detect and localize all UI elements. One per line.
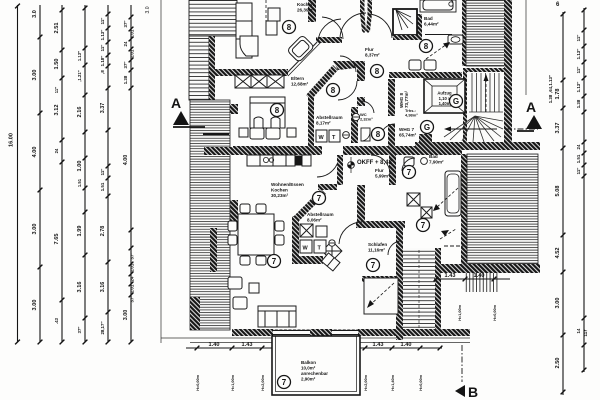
svg-text:1.51: 1.51 bbox=[77, 178, 82, 187]
roof hatch top right bbox=[466, 0, 506, 66]
svg-text:,8: ,8 bbox=[100, 70, 105, 74]
glass partition diagonal Eltern bbox=[286, 37, 322, 74]
svg-text:10,0m²: 10,0m² bbox=[301, 366, 316, 371]
wall Kochen/Flur top bbox=[316, 37, 342, 43]
svg-text:37″: 37″ bbox=[123, 20, 128, 28]
svg-text:1.99: 1.99 bbox=[77, 226, 83, 237]
svg-text:4,98m²: 4,98m² bbox=[405, 113, 418, 118]
svg-text:65,74m²: 65,74m² bbox=[399, 133, 417, 138]
svg-text:OKFF + 8,48: OKFF + 8,48 bbox=[357, 160, 393, 166]
svg-text:H=1,00m: H=1,00m bbox=[231, 374, 235, 390]
left dimension chain 5 bbox=[107, 5, 109, 342]
bed Eltern bbox=[239, 97, 296, 139]
svg-text:1.51: 1.51 bbox=[576, 154, 581, 163]
svg-text:3.00: 3.00 bbox=[123, 310, 129, 321]
svg-text:Kochen: Kochen bbox=[271, 188, 288, 193]
door arcs Kochen bbox=[322, 17, 343, 39]
Whg7 stair treads bbox=[403, 248, 435, 329]
door arc WC bbox=[361, 101, 374, 113]
right dimension chain 1 bbox=[562, 12, 564, 395]
wall top-right interior bbox=[462, 0, 468, 66]
svg-text:Bad: Bad bbox=[429, 154, 438, 159]
left outer wall lower bbox=[190, 297, 200, 330]
svg-text:2.51: 2.51 bbox=[54, 23, 60, 34]
Abstellraum7 south wall bbox=[292, 256, 323, 264]
svg-text:H=1,00m: H=1,00m bbox=[458, 304, 462, 320]
unit circle 7 Abstell bbox=[313, 192, 326, 205]
svg-text:7: 7 bbox=[421, 221, 426, 230]
svg-text:1.01: 1.01 bbox=[130, 284, 135, 293]
svg-text:4.52: 4.52 bbox=[555, 248, 561, 259]
svg-text:Balkon: Balkon bbox=[301, 360, 316, 365]
boxed symbol entry bbox=[361, 128, 370, 141]
svg-text:H=2,00m: H=2,00m bbox=[261, 374, 265, 390]
svg-text:11″: 11″ bbox=[576, 34, 581, 42]
bottom dimension line right part bbox=[360, 347, 442, 349]
winder stairs bbox=[444, 116, 503, 142]
svg-text:73,77m²: 73,77m² bbox=[404, 90, 409, 108]
wall Abstellraum8 north bbox=[333, 61, 365, 70]
svg-text:2.78: 2.78 bbox=[100, 226, 106, 237]
svg-text:H=1,40m: H=1,40m bbox=[391, 374, 395, 390]
unit circle 7 Balkon bbox=[278, 376, 291, 389]
wall Abstellraum8 west bbox=[308, 95, 314, 148]
level mark OKFF bbox=[348, 162, 355, 169]
svg-text:anrechenbar: anrechenbar bbox=[301, 371, 328, 376]
svg-text:30,23m²: 30,23m² bbox=[271, 193, 289, 198]
cupboard crossed Schlafen bbox=[300, 224, 327, 237]
svg-text:8,06m²: 8,06m² bbox=[307, 218, 322, 223]
right facade line bbox=[525, 0, 527, 95]
svg-text:11″: 11″ bbox=[54, 87, 59, 93]
svg-text:W: W bbox=[303, 246, 309, 252]
stair up arrow bbox=[485, 78, 487, 112]
svg-text:1.13″: 1.13″ bbox=[77, 51, 82, 61]
door arc Eltern bbox=[340, 56, 356, 72]
wall south right wing bbox=[398, 264, 540, 273]
chamfer wall Abstellraum8 bbox=[306, 65, 338, 100]
right outer wall bbox=[504, 0, 512, 147]
unit circle 7 Bad bbox=[417, 219, 430, 232]
wardrobe Eltern bbox=[235, 75, 284, 88]
svg-text:.43: .43 bbox=[54, 317, 59, 323]
svg-text:7: 7 bbox=[317, 194, 322, 203]
svg-text:3.16: 3.16 bbox=[100, 282, 106, 293]
mid-right dimension line bbox=[434, 278, 510, 280]
Abstellraum7 chamfer wall bbox=[294, 189, 326, 221]
mid-right height labels bbox=[458, 304, 497, 320]
svg-text:7: 7 bbox=[407, 168, 412, 177]
bathtub Bad7 bbox=[445, 171, 461, 216]
svg-text:3.00: 3.00 bbox=[555, 298, 561, 309]
exterior steps below right wing bbox=[464, 273, 498, 292]
arrow Bad7 bbox=[436, 188, 458, 208]
wc Bad8 bbox=[409, 60, 421, 70]
svg-text:Eltern: Eltern bbox=[291, 76, 304, 81]
landing edge in band bbox=[203, 133, 229, 135]
svg-text:4.00: 4.00 bbox=[32, 147, 38, 158]
svg-text:3.00: 3.00 bbox=[32, 70, 38, 81]
svg-text:11‽: 11‽ bbox=[583, 330, 588, 337]
svg-text:11″: 11″ bbox=[100, 44, 105, 52]
unit circle 7 Flur bbox=[403, 166, 416, 179]
left dimension chain 2 bbox=[39, 5, 41, 342]
Flur/Schlafen pier bbox=[357, 185, 365, 223]
living room west boundary line bbox=[229, 156, 231, 330]
svg-text:3.37: 3.37 bbox=[100, 103, 106, 114]
eaves line left bbox=[160, 0, 162, 343]
svg-text:37″: 37″ bbox=[77, 327, 82, 334]
stairwell upper flight treads bbox=[469, 73, 503, 112]
wall return mid bbox=[230, 200, 238, 228]
svg-text:7: 7 bbox=[272, 257, 277, 266]
svg-text:Flur: Flur bbox=[375, 168, 384, 173]
svg-text:2.16: 2.16 bbox=[77, 107, 83, 118]
svg-text:37″: 37″ bbox=[130, 295, 135, 303]
svg-text:37″: 37″ bbox=[130, 252, 135, 260]
svg-text:2.50: 2.50 bbox=[555, 358, 561, 369]
left dimension chain 4 bbox=[84, 5, 86, 342]
right small label column bbox=[548, 74, 553, 103]
armchair Eltern rotated bbox=[287, 35, 315, 63]
door arc living bbox=[317, 155, 339, 177]
crossed box near elevator bbox=[407, 193, 432, 218]
svg-text:W: W bbox=[319, 135, 325, 141]
svg-text:26,39m²: 26,39m² bbox=[297, 8, 315, 13]
svg-text:24: 24 bbox=[54, 148, 59, 153]
Whg7 stair east wall bbox=[435, 248, 441, 336]
svg-text:3.12: 3.12 bbox=[54, 105, 60, 116]
svg-text:1.78: 1.78 bbox=[555, 89, 561, 100]
wall Bad8 west bbox=[416, 14, 422, 40]
section marker B bottom bbox=[455, 385, 465, 397]
svg-text:24: 24 bbox=[123, 41, 128, 46]
sink symbol 2 bbox=[343, 132, 350, 139]
washbasin Bad8 bbox=[448, 35, 463, 44]
bathtub Bad8 bbox=[423, 0, 453, 10]
bottom height labels bbox=[196, 374, 423, 390]
svg-text:1.01: 1.01 bbox=[130, 29, 135, 38]
svg-text:1.13″: 1.13″ bbox=[576, 81, 581, 93]
balcony bbox=[272, 336, 360, 395]
svg-text:11″: 11″ bbox=[100, 17, 105, 25]
svg-text:8: 8 bbox=[375, 67, 380, 76]
svg-text:3.37: 3.37 bbox=[555, 123, 561, 134]
svg-text:Aufzug: Aufzug bbox=[437, 91, 452, 96]
svg-text:,1.21″: ,1.21″ bbox=[77, 70, 82, 81]
svg-text:B: B bbox=[468, 384, 478, 400]
svg-text:1.38: 1.38 bbox=[576, 99, 581, 108]
svg-text:11″: 11″ bbox=[100, 168, 105, 176]
svg-text:H=0,00m: H=0,00m bbox=[419, 374, 423, 390]
svg-text:1.01: 1.01 bbox=[130, 263, 135, 272]
kitchen row Whg7 bbox=[247, 155, 311, 166]
roof window arrow Bad7 lower bbox=[440, 229, 456, 239]
svg-text:Wohnen/Essen: Wohnen/Essen bbox=[271, 182, 304, 187]
svg-text:12,68m²: 12,68m² bbox=[291, 82, 309, 87]
svg-text:8: 8 bbox=[376, 130, 381, 139]
svg-text:5.08: 5.08 bbox=[555, 186, 561, 197]
sofa group Whg7 bbox=[228, 277, 296, 327]
svg-text:1.01: 1.01 bbox=[130, 49, 135, 58]
svg-text:A: A bbox=[171, 95, 181, 111]
divider wall through band bbox=[204, 147, 233, 155]
svg-text:28,17″: 28,17″ bbox=[100, 321, 105, 335]
svg-text:1.40: 1.40 bbox=[474, 273, 485, 279]
svg-text:7,90m²: 7,90m² bbox=[429, 160, 444, 165]
arrow Bad8 bbox=[426, 44, 447, 59]
svg-text:1.13″: 1.13″ bbox=[100, 29, 105, 41]
svg-text:A: A bbox=[526, 99, 536, 115]
door arc Abstellraum8 bbox=[338, 81, 357, 100]
elevator shaft bbox=[424, 79, 465, 113]
wall Whg8 south of bath bbox=[389, 72, 462, 78]
wall Kochen/Eltern horizontal bbox=[213, 69, 288, 76]
stair side wall bbox=[209, 36, 215, 102]
kitchen tall cabinet Whg8 bbox=[236, 3, 280, 58]
washer dryer Whg7 bbox=[300, 240, 326, 253]
unit circle 8 entry bbox=[372, 128, 385, 141]
svg-text:1.38: 1.38 bbox=[123, 75, 128, 84]
svg-text:3.00: 3.00 bbox=[32, 300, 38, 311]
sink symbol Whg8 bbox=[352, 113, 359, 120]
svg-text:5,99m²: 5,99m² bbox=[375, 174, 390, 179]
svg-text:1.40: 1.40 bbox=[401, 342, 412, 348]
svg-text:WHG 7: WHG 7 bbox=[399, 127, 415, 132]
section line A-A dash-dot bbox=[506, 128, 538, 130]
svg-text:6,44m²: 6,44m² bbox=[424, 22, 439, 27]
svg-text:H=2,00m: H=2,00m bbox=[364, 374, 368, 390]
apartment divider wall (Whg8/Whg7) bbox=[233, 146, 322, 155]
wall WC west bbox=[357, 67, 365, 81]
svg-text:1.38: 1.38 bbox=[548, 94, 553, 103]
svg-text:24: 24 bbox=[576, 144, 581, 149]
svg-text:8: 8 bbox=[275, 106, 280, 115]
svg-text:1.00: 1.00 bbox=[77, 161, 83, 172]
roof slope hatch band left bbox=[190, 100, 230, 330]
svg-text:14: 14 bbox=[576, 328, 581, 333]
stairwell box bbox=[465, 70, 506, 144]
svg-text:7.65: 7.65 bbox=[54, 234, 60, 245]
svg-text:8: 8 bbox=[331, 86, 336, 95]
svg-text:1.43: 1.43 bbox=[242, 342, 253, 348]
svg-text:1.50: 1.50 bbox=[54, 59, 60, 70]
door arc Whg8 entry bbox=[380, 124, 395, 139]
shower Bad8 bbox=[393, 9, 417, 35]
svg-text:1.51: 1.51 bbox=[100, 182, 105, 191]
terrace square Whg7 bbox=[362, 276, 400, 282]
wc Bad7 bbox=[404, 157, 414, 166]
left dimension chain 6 bbox=[130, 5, 132, 342]
Abstellraum7 west wall bbox=[292, 216, 299, 262]
wall pier below elevator bbox=[419, 134, 432, 144]
svg-text:11,16m²: 11,16m² bbox=[368, 248, 385, 253]
roof hatch band right bbox=[467, 154, 538, 264]
unit circle 8 Eltern bbox=[327, 84, 340, 97]
dining table Whg7 bbox=[228, 204, 284, 265]
Abstellraum7 pier north bbox=[318, 184, 337, 190]
dashed ceiling line Bad7 bbox=[444, 245, 464, 247]
svg-text:Kochen: Kochen bbox=[297, 2, 314, 7]
wall return upper bbox=[230, 104, 238, 114]
svg-text:2,32m²: 2,32m² bbox=[360, 117, 373, 122]
door arc Flur7 bbox=[371, 155, 390, 174]
unit circle G stair bbox=[450, 95, 463, 108]
svg-text:1.13″: 1.13″ bbox=[576, 48, 581, 60]
svg-text:1.43: 1.43 bbox=[445, 273, 456, 279]
unit circle G lower bbox=[421, 121, 434, 134]
pier Flur7/Bad7 bbox=[389, 155, 396, 185]
rotated cabinet Abstellraum7 bbox=[321, 253, 340, 271]
svg-text:4.00: 4.00 bbox=[123, 155, 129, 166]
eaves double line bottom bbox=[161, 337, 470, 339]
unit circle 8 Bad bbox=[420, 40, 433, 53]
svg-text:3.00: 3.00 bbox=[32, 224, 38, 235]
svg-text:8: 8 bbox=[287, 23, 292, 32]
right dimension chain 2 bbox=[583, 8, 585, 372]
svg-text:3.0: 3.0 bbox=[145, 6, 151, 13]
svg-text:Abstellraum: Abstellraum bbox=[316, 115, 343, 120]
wall Trhs west bbox=[388, 79, 395, 116]
svg-text:Abstellraum: Abstellraum bbox=[307, 212, 334, 217]
hall door post Y bbox=[360, 0, 365, 14]
svg-text:3.0: 3.0 bbox=[32, 10, 38, 18]
svg-text:1.18″: 1.18″ bbox=[100, 55, 105, 67]
svg-text:H=0,00m: H=0,00m bbox=[196, 374, 200, 390]
svg-text:11″: 11″ bbox=[576, 66, 581, 74]
Whg7 stair west wall bbox=[396, 222, 403, 340]
kitchen dashed line bbox=[265, 0, 267, 35]
unit circle 8 bed bbox=[271, 104, 284, 117]
svg-text:1.43: 1.43 bbox=[373, 342, 384, 348]
svg-text:3.16: 3.16 bbox=[77, 282, 83, 293]
svg-text:Bad: Bad bbox=[424, 16, 433, 21]
washer dryer Whg8 bbox=[316, 130, 340, 142]
door arc Bad7 bbox=[402, 158, 415, 171]
stair direction arrow bbox=[448, 128, 497, 130]
wall Bad7 east bbox=[461, 154, 467, 264]
svg-text:Flur: Flur bbox=[365, 47, 374, 52]
exterior wall within band bbox=[210, 228, 217, 272]
unit circle 8 Flur bbox=[371, 65, 384, 78]
svg-text:16.00: 16.00 bbox=[9, 133, 15, 147]
door arc Schlafen bbox=[339, 222, 362, 244]
svg-text:8,37m²: 8,37m² bbox=[365, 53, 380, 58]
svg-text:2,90m²: 2,90m² bbox=[301, 377, 316, 382]
bottom dimension line left part bbox=[186, 347, 272, 349]
bottom exterior wall bbox=[232, 329, 470, 336]
unit circle 8 Kochen bbox=[283, 21, 296, 34]
pillar WC east bbox=[351, 107, 358, 143]
svg-text:H=0,00m: H=0,00m bbox=[493, 304, 497, 320]
left dimension chain 3 bbox=[61, 5, 63, 342]
svg-text:7: 7 bbox=[371, 261, 376, 270]
unit circle 7 Wohnen bbox=[268, 255, 281, 268]
svg-text:7: 7 bbox=[282, 378, 287, 387]
svg-text:11″: 11″ bbox=[576, 167, 581, 175]
door arc Whg7 entry bbox=[388, 241, 400, 255]
svg-text:G: G bbox=[424, 123, 430, 132]
Schlafen north wall bbox=[356, 221, 405, 228]
svg-text:Schlafen: Schlafen bbox=[368, 242, 387, 247]
svg-text:8,17m²: 8,17m² bbox=[316, 121, 331, 126]
svg-text:24: 24 bbox=[130, 276, 135, 281]
unit circle 7 Schlafen bbox=[367, 259, 380, 272]
svg-text:37″: 37″ bbox=[123, 61, 128, 69]
svg-text:1.40: 1.40 bbox=[209, 342, 220, 348]
left dimension chain 1 (overall 16.00) bbox=[17, 5, 19, 342]
svg-text:8: 8 bbox=[424, 42, 429, 51]
roof window arrow Whg7 bbox=[370, 283, 394, 305]
svg-text:G: G bbox=[453, 97, 459, 106]
svg-text:,64,1.13″: ,64,1.13″ bbox=[548, 74, 553, 93]
stair flight top-left bbox=[189, 0, 237, 36]
rotated basin Schlafen bbox=[322, 241, 342, 261]
wall Kochen east top bbox=[308, 0, 316, 22]
